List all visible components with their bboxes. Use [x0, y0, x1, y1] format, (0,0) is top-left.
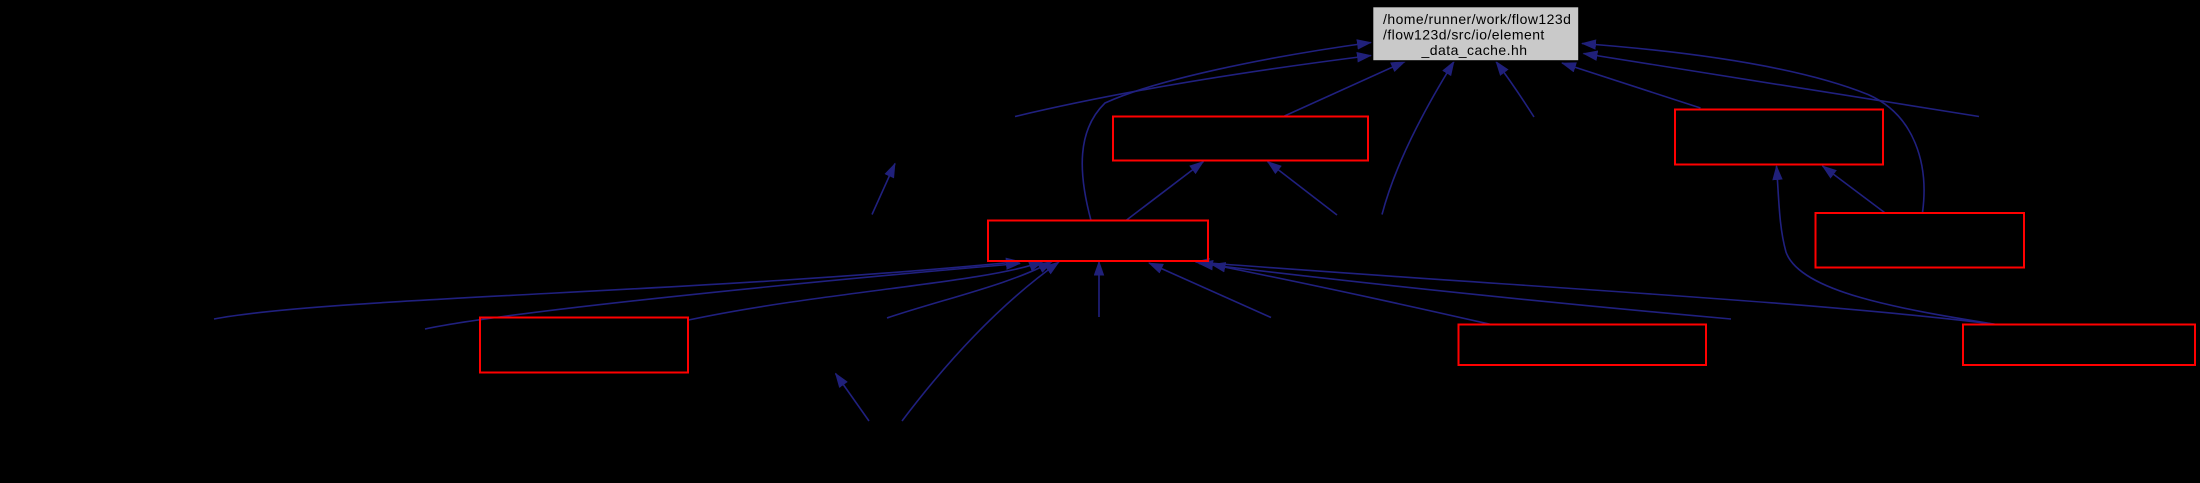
wire edge: node B3 to root (curved around left of B1) [1082, 43, 1371, 221]
wire edge: node B6 to node B3 [1212, 265, 1493, 325]
wire edge: node B3 to node B1 [1126, 162, 1204, 221]
node B2: red box upper right [1675, 110, 1883, 165]
wire edge: node B5 to node B3 [689, 262, 1044, 321]
wire edge: hidden node to node B3 (from lower right) [1149, 263, 1271, 318]
wire edge: far-left hidden node 2 to node B3 [425, 264, 1020, 330]
wire edge: hidden node to root bottom (steep) [1382, 62, 1454, 215]
node B5: red box lower left [480, 318, 688, 373]
node B4: red box right [1816, 213, 2025, 268]
wire edge: hidden node to root bottom (short, from right) [1496, 62, 1534, 118]
wire edge: hidden node to node B3 (long 2) [1199, 264, 1731, 320]
wire edge: far-left hidden node to node B3 [214, 262, 1020, 320]
wire edge: floating short arrow middle [872, 164, 895, 215]
wire edge: hidden node to root right lower [1584, 54, 1980, 117]
svg-text:/home/runner/work/flow123d: /home/runner/work/flow123d [1383, 11, 1571, 27]
node B1: red box upper middle [1113, 117, 1368, 161]
node B6: red box lower middle-right [1459, 325, 1707, 366]
wire edge: lower hidden node to node B3 (steep curve) [902, 262, 1059, 421]
node B3: red box middle [988, 221, 1208, 262]
wire edge: node B4 to root right (big curve) [1582, 44, 1924, 213]
wire edge: hidden node to node B3 (mid) [887, 262, 1052, 319]
node B7: red box lower right [1963, 325, 2195, 366]
wire edge: floating short arrow lower middle [836, 374, 870, 422]
wire edge: hidden node to root left lower [1015, 56, 1371, 117]
wire edge: node B4 to node B2 [1823, 166, 1885, 213]
svg-text:_data_cache.hh: _data_cache.hh [1421, 42, 1528, 58]
node ROOT: /home/runner/work/flow123d/flow123d/src/io/element_data_cache.hh [1373, 7, 1580, 62]
svg-text:/flow123d/src/io/element: /flow123d/src/io/element [1383, 27, 1545, 43]
wire edge: node B1 to root bottom [1285, 62, 1406, 117]
wire edge: hidden node to node B1 [1268, 162, 1338, 216]
wire edge: node B7 to node B2 (curve left of B4) [1777, 166, 1996, 324]
wire edge: node B2 to root bottom-right corner [1562, 63, 1701, 108]
wire edge: hidden node to node B3 (vertical) [1098, 262, 1100, 318]
wire edge: node B7 to node B3 (long) [1196, 262, 1996, 324]
